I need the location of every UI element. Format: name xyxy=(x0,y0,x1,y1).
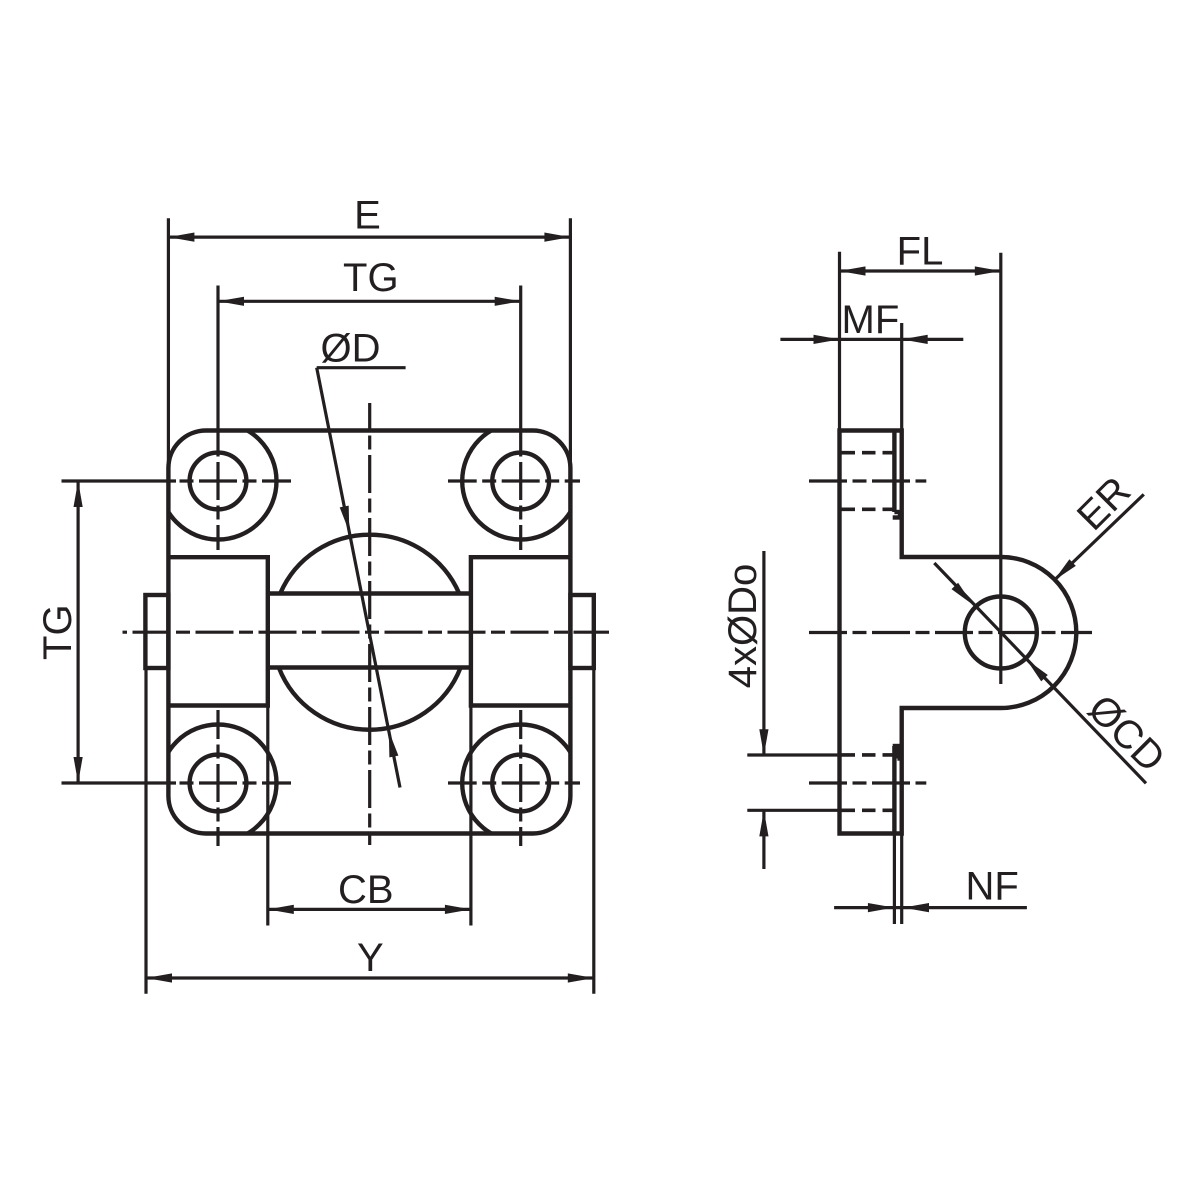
svg-text:FL: FL xyxy=(897,230,944,274)
svg-text:TG: TG xyxy=(343,256,399,300)
svg-text:ØCD: ØCD xyxy=(1079,687,1173,781)
svg-text:ØD: ØD xyxy=(321,326,381,370)
svg-text:NF: NF xyxy=(966,865,1019,909)
svg-text:CB: CB xyxy=(338,868,394,912)
svg-text:MF: MF xyxy=(842,298,900,342)
svg-text:Y: Y xyxy=(357,936,384,980)
svg-text:4xØDo: 4xØDo xyxy=(721,564,765,689)
svg-text:E: E xyxy=(354,193,381,237)
svg-text:ER: ER xyxy=(1069,469,1139,539)
svg-text:TG: TG xyxy=(36,604,80,660)
